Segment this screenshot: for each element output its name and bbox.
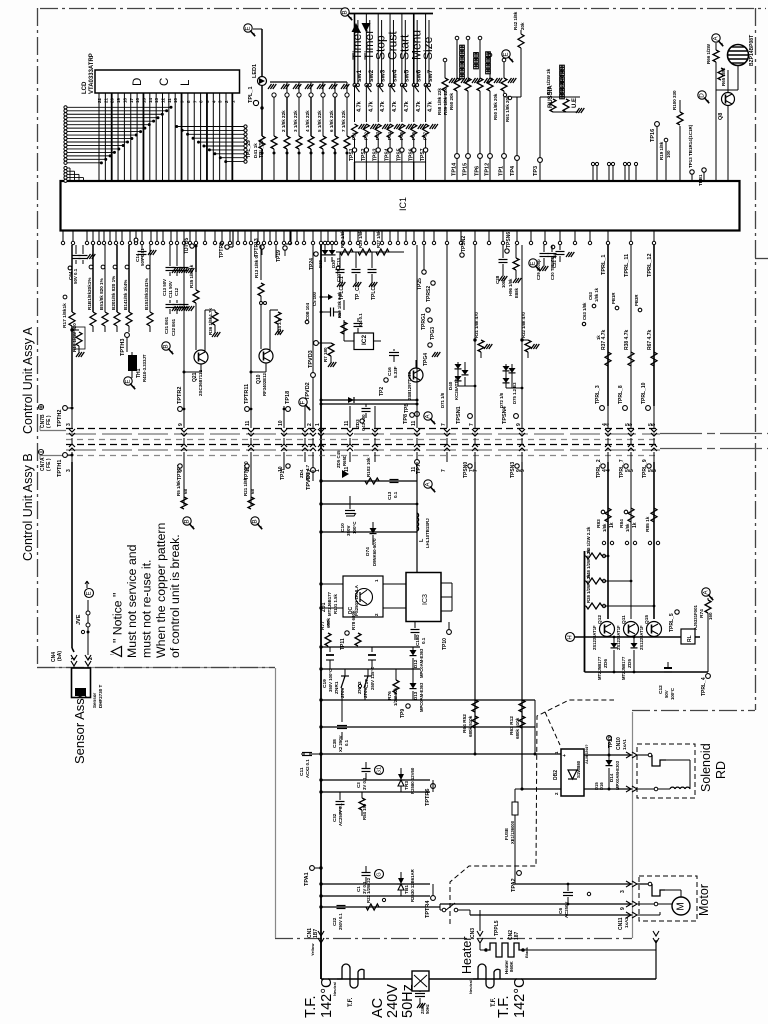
svg-text:TP18: TP18 [285,391,291,404]
svg-text:TPS4: TPS4 [385,148,391,161]
test point TP4 [516,97,518,181]
svg-text:TPS2: TPS2 [361,148,367,161]
svg-text:R22 1/2W 22: R22 1/2W 22 [366,877,371,903]
board-to-board connector band row4 black dashed [66,444,660,446]
test point TPTR11 [245,407,250,412]
svg-text:50V: 50V [664,690,669,698]
svg-text:10: 10 [278,420,284,426]
svg-text:R68 4.7: R68 4.7 [305,464,310,480]
svg-text:MPX0AM-E303: MPX0AM-E303 [615,760,620,790]
svg-text:R26 1/8k: R26 1/8k [340,230,345,248]
svg-text:ZD6: ZD6 [603,659,609,668]
page frame dash-dot top border [40,8,766,10]
connector CN2 187 arrows [653,931,659,943]
power rail y647 [321,646,420,648]
svg-text:C22: C22 [332,917,337,926]
switch SW2 Timer [365,14,367,84]
svg-text:R58 1/8k 22k: R58 1/8k 22k [437,87,442,115]
svg-text:TPSN2: TPSN2 [461,236,467,252]
resistor R13 1/8k 0 [258,283,264,296]
wire TPRL_1 column [607,245,609,406]
svg-text:B: B [184,519,191,523]
wire TPRL_9 column lower [653,462,655,619]
capacitor C13 0.1 [390,479,399,481]
resistor R59b [341,322,347,334]
svg-text:11: 11 [245,420,251,426]
svg-text:XE1/136000: XE1/136000 [510,820,515,844]
svg-text:When the copper pattern: When the copper pattern [154,522,168,658]
svg-text:TP1: TP1 [499,166,505,176]
IC IC2 [354,333,374,350]
svg-text:Q15: Q15 [644,615,650,624]
svg-text:MTZJ6B177: MTZJ6B177 [327,592,332,616]
solenoid contact flag [637,754,648,756]
svg-text:7 1/8k 22k: 7 1/8k 22k [341,110,346,132]
svg-text:3: 3 [620,890,626,893]
cluster capacitors C13 C11 C12 row1 [169,245,171,266]
solenoid box dashed [637,744,695,798]
svg-text:R38 4.7k: R38 4.7k [624,329,630,350]
test point TPSN1 [468,414,473,419]
svg-text:TPS3: TPS3 [373,148,379,161]
svg-text:R27 1/8k: R27 1/8k [376,230,381,248]
resistor R35 1/8k 1k [193,290,199,303]
svg-text:VTA0333ATRP: VTA0333ATRP [89,53,95,94]
svg-text:TP24: TP24 [309,258,315,270]
svg-text:TP15: TP15 [463,163,469,176]
test point TPRL_4 [706,674,711,679]
svg-text:TPVD2: TPVD2 [305,382,311,400]
svg-text:1/8k: 1/8k [625,523,630,532]
svg-text:Black: Black [524,947,529,958]
svg-text:270V: 270V [340,687,345,698]
svg-text:B151/8k3341%: B151/8k3341% [144,278,149,310]
test point circle D with arrow [698,91,706,99]
capacitor C6 AC250V [563,892,573,894]
svg-text:C: C [159,78,171,86]
switch SW7 Size [425,14,427,84]
test point TP9 [406,704,410,708]
test point circle B mid2 [251,517,259,525]
svg-text:B51/8k 820 1%: B51/8k 820 1% [99,278,104,310]
svg-text:B201/8k 820 1%: B201/8k 820 1% [111,276,116,310]
diode group D71 D72 [462,370,469,375]
svg-text:D13: D13 [413,691,418,700]
svg-text:Q12: Q12 [597,615,603,624]
svg-text:R7 180: R7 180 [323,347,328,362]
test point TPL_1 [253,100,258,105]
svg-text:R17 1/8k1k: R17 1/8k1k [62,303,68,328]
test point TPVD2 [311,373,316,378]
capacitor C17 250V 135C [371,647,373,652]
test point circle F [299,398,307,406]
resistor R65 1/8k [718,68,724,80]
triac TR3 cluster [321,779,430,781]
svg-text:R8 1/2W 2.2k: R8 1/2W 2.2k [586,526,591,553]
boundary dash-dot bottom of control unit B [275,938,632,940]
svg-text:H96 1/8k: H96 1/8k [508,278,513,296]
svg-text:R102 10k: R102 10k [366,457,371,477]
resistor R20 1/2W 2k [540,96,580,98]
test point TPTH3 [125,333,130,338]
svg-text:15: 15 [141,97,146,103]
svg-text:TPSN4: TPSN4 [502,405,508,424]
open pin pairs mid [602,541,605,544]
power rail y504 [321,503,417,505]
resistor R21 below band [248,497,254,509]
capacitor C4 [357,318,359,322]
svg-text:R5 1/8k: R5 1/8k [176,480,181,496]
svg-text:ACX2 0.1: ACX2 0.1 [305,759,310,778]
svg-text:TP25: TP25 [417,278,423,290]
svg-text:G1: G1 [376,767,382,774]
wire TPSN2 column [446,245,448,406]
test point TPRL_8 [623,406,628,411]
svg-text:TPL_29: TPL_29 [246,140,252,158]
test point circle E above JVE [85,589,94,598]
svg-text:TPG4: TPG4 [423,353,429,366]
svg-text:1k: 1k [596,335,601,340]
svg-text:D71 1/8: D71 1/8 [440,392,445,408]
test point TPB1 [702,168,706,172]
test point circle G [375,870,384,879]
svg-text:FUSE: FUSE [504,828,509,840]
svg-text:TPPL5: TPPL5 [494,920,500,936]
svg-text:TP14: TP14 [452,162,458,176]
svg-text:Yellow: Yellow [310,943,315,956]
resistor R52 4.7k [365,87,367,122]
svg-text:T.F.: T.F. [348,997,354,1007]
svg-text:C30 TPL.C8: C30 TPL.C8 [550,256,555,280]
test point TPTH2 [63,406,68,411]
boundary gray vertical at x=632 [632,712,634,938]
test point circle G1 [375,766,384,775]
svg-text:IC1: IC1 [398,197,408,211]
svg-text:TPSN6: TPSN6 [506,232,512,248]
resistor R16 1/4W 820 [70,328,73,331]
transistor Q11 2S1238AT1F [624,622,639,637]
svg-text:R48 1/2W 2.2k: R48 1/2W 2.2k [586,549,591,578]
svg-text:3 1/8k 22k: 3 1/8k 22k [293,110,298,132]
switch SW1 Timer [354,14,356,84]
svg-text:R1B1/8k20k1%: R1B1/8k20k1% [87,278,92,310]
svg-text:C13: C13 [387,491,392,500]
svg-text:5 1/8k 22k: 5 1/8k 22k [317,110,322,132]
svg-text:2 1/8k 22k: 2 1/8k 22k [281,110,286,132]
svg-text:19: 19 [116,97,121,103]
svg-text:7: 7 [441,423,447,426]
capacitor C10 350V 100C [349,496,351,504]
capacitor C1 0.1 [362,872,371,874]
board-to-board connector band row6 gray dashed [66,455,660,457]
svg-text:R19 1/8k: R19 1/8k [659,141,664,160]
resistor R54 4.7k [389,87,391,122]
svg-text:TP16: TP16 [650,129,656,142]
test point TPTR4 [431,896,436,901]
test point TPTH1 [63,453,68,458]
svg-text:4.7k: 4.7k [404,100,410,112]
svg-text:R66 1/2W: R66 1/2W [706,43,711,64]
svg-text:R100 330: R100 330 [672,90,677,110]
svg-text:must not re-use it.: must not re-use it. [140,560,154,658]
svg-text:350V 100°C: 350V 100°C [328,669,333,692]
resistor R76 1/2W [393,680,399,693]
svg-text:TPTH1: TPTH1 [57,460,63,477]
svg-text:E88k: E88k [514,287,519,298]
test point TPS7 [425,138,427,162]
resistor R36 1/8k 4.7k [212,312,218,325]
svg-text:TPRL_11: TPRL_11 [624,254,630,277]
zener ZD6 MTZJ5B177 [613,637,615,643]
long wire TPSN4 column [521,245,523,406]
svg-text:TDTO5: TDTO5 [184,237,190,254]
test point column TP1 [502,58,506,62]
svg-text:R78 680k: R78 680k [351,610,356,630]
wire x276 stub [275,245,277,258]
svg-text:1: 1 [315,423,321,426]
svg-text:21: 21 [103,97,108,103]
motor connector crossing arrows [626,881,637,887]
test point circle E with arrow [244,24,252,32]
svg-text:TPTR13: TPTR13 [254,238,260,257]
svg-text:R410-3.333JT: R410-3.333JT [142,354,147,382]
svg-text:D16: D16 [599,782,604,790]
inductor L LHL10TB1SRJ [417,513,419,518]
bottom rail y672 [585,671,709,673]
svg-text:12: 12 [161,97,166,103]
svg-text:3: 3 [66,469,72,472]
svg-text:TPA2: TPA2 [511,878,517,892]
test point circle H [566,633,575,642]
svg-text:5: 5 [625,423,631,426]
svg-text:R31 1/8k 470: R31 1/8k 470 [474,312,479,338]
svg-text:860K: 860K [509,960,514,972]
svg-text:TPS7: TPS7 [420,148,426,161]
svg-text:C32 E61: C32 E61 [171,318,176,336]
svg-text:50V 0.1: 50V 0.1 [73,268,78,284]
svg-text:" Notice ": " Notice " [111,593,125,643]
capacitor C21 1uF [559,245,561,250]
resistor R38 4.7k [628,352,634,366]
solenoid connector crossing arrows [626,752,637,758]
svg-text:TPB1: TPB1 [698,174,703,186]
svg-text:4: 4 [602,423,608,426]
svg-text:TPG3: TPG3 [430,327,436,340]
svg-text:Control Unit Assy A: Control Unit Assy A [21,326,35,434]
resistor columns with pullups to IC1 [286,82,288,93]
svg-text:TPTR11: TPTR11 [244,384,250,404]
svg-text:680k 510k: 680k 510k [468,715,473,737]
svg-text:TP10: TP10 [442,638,448,650]
svg-text:14: 14 [148,97,153,103]
svg-text:C31 E61: C31 E61 [164,316,169,334]
svg-text:Sensor Assy: Sensor Assy [72,691,87,764]
svg-text:R59 1/8k 2.2k: R59 1/8k 2.2k [337,291,342,318]
svg-text:R20 1/2W 2k: R20 1/2W 2k [546,68,551,95]
svg-text:18: 18 [122,97,127,103]
svg-text:sw3: sw3 [380,69,387,82]
svg-text:B: B [252,519,259,523]
svg-text:D12: D12 [413,659,418,668]
svg-text:+: + [562,754,568,757]
svg-text:100°C: 100°C [670,688,675,700]
svg-text:RD: RD [714,761,728,779]
svg-text:160: 160 [708,612,713,620]
double rail to TP8 column [321,399,417,401]
svg-text:Q11: Q11 [621,615,627,624]
wire TPRL_11 column [630,245,632,406]
svg-text:7: 7 [469,423,475,426]
svg-text:TPTR9: TPTR9 [219,242,225,258]
svg-text:TPS6: TPS6 [408,148,414,161]
resistor array R1B1/B51/B201/B141/B151 [92,245,94,312]
svg-text:R32 1/8k 470: R32 1/8k 470 [521,312,526,338]
switch SW4 Crust [389,14,391,84]
resistor R14 3.7k [275,312,281,324]
svg-text:(bA): (bA) [57,651,63,661]
resistor RD1 1/2W 2k [563,99,569,112]
capacitor C61 [82,245,84,254]
svg-text:RD1 1/2W 2k: RD1 1/2W 2k [559,67,564,95]
capacitor C19 350V 100C zener style [329,647,331,652]
resistor R100 330 [677,112,683,125]
svg-text:4.7k: 4.7k [380,100,386,112]
transistor Q10 [259,349,273,363]
svg-text:R74: R74 [699,609,705,618]
svg-text:TPRL_2: TPRL_2 [596,459,602,478]
svg-text:142°C: 142°C [319,978,335,1018]
test point TPTR2 [178,407,183,412]
resistor R37 4.7k [605,352,611,366]
svg-text:7: 7 [441,469,447,472]
capacitor C22 and resistor R22 [321,906,440,908]
svg-text:B141/8k 3k4%: B141/8k 3k4% [123,280,128,310]
triac TB1 symbol [398,878,404,884]
svg-text:BZP14BP08T: BZP14BP08T [749,35,755,66]
page frame dash-dot left border [37,8,39,667]
svg-text:1xA2: 1xA2 [624,917,629,928]
svg-text:250V 0.1: 250V 0.1 [338,913,343,930]
test point column TP6 [478,36,482,40]
resistor R84 1k [628,508,634,522]
svg-text:TPTR4: TPTR4 [425,900,431,918]
svg-text:PB3R: PB3R [634,294,639,306]
svg-text:TPTH2: TPTH2 [57,410,63,427]
capacitor C18D 0.1 [414,622,416,628]
svg-text:Solenoid: Solenoid [699,743,713,792]
svg-text:D41 1k: D41 1k [253,143,258,158]
test point column R60 [443,58,447,62]
thermistor sensor body [72,668,91,698]
open contacts near R13 [260,302,263,305]
resistor R64 R52 labels [472,700,478,712]
svg-text:sw4: sw4 [392,69,399,82]
svg-text:10: 10 [173,97,178,103]
svg-text:DHF2730 T: DHF2730 T [98,684,103,708]
wire branch x535 down [534,700,536,754]
resistor R78 680k [355,633,361,646]
svg-text:sw2: sw2 [368,69,375,82]
svg-text:4.7k: 4.7k [392,100,398,112]
key arrow down triangle [362,23,371,32]
heater row [480,949,486,951]
LCD pin wires to IC1 [98,93,100,181]
capacitor C64 50V 0.1 [75,245,77,254]
test point TPRL_3 [600,406,605,411]
svg-text:R54 150: R54 150 [362,803,367,820]
svg-text:E: E [503,52,510,56]
svg-text:C63 1/8k: C63 1/8k [582,302,587,320]
test point TP2 [384,378,388,382]
wire comb left bus with junction dots [64,106,67,109]
svg-text:C4 0.1: C4 0.1 [358,313,363,326]
svg-text:Sensor: Sensor [92,692,97,708]
power rail y754 capacitor C11 [321,753,561,755]
test point column TP14 [455,36,459,40]
svg-text:22: 22 [97,97,102,103]
svg-text:5.33F: 5.33F [393,366,398,378]
resistor R85 1k [651,508,657,522]
svg-text:11: 11 [344,466,350,472]
svg-text:4.7k: 4.7k [368,100,374,112]
svg-text:C63: C63 [588,292,593,300]
test point circle A near TP8 [424,412,432,420]
test point TPS1 [354,138,356,162]
switch SW3 Stop [377,14,379,84]
svg-text:1xA1: 1xA1 [622,739,627,750]
IC1 top stub pins with open circles [591,162,594,165]
switch bottom bus [355,161,426,163]
diode D74 D9NK60 [370,528,377,534]
wire TP8 column [416,245,418,406]
svg-text:D: D [132,78,144,86]
svg-text:sw5: sw5 [403,69,410,82]
diode D12 MPC0AM-E363 [410,650,417,656]
svg-text:MPC0AM-E363: MPC0AM-E363 [419,682,424,712]
svg-text:50V 0.01: 50V 0.01 [140,248,145,266]
page frame dash-dot right border [755,8,757,710]
relay contact switch [442,908,446,912]
connector band extension right [660,433,768,435]
motor rail 3 [470,914,632,916]
test point TPRL_10 [646,406,651,411]
test point TPRL_5 [675,610,679,614]
svg-text:TP8: TP8 [403,414,409,424]
LCD module block [95,70,240,93]
power rail y669 [321,668,420,670]
resistor R55 4.7k [401,87,403,122]
svg-text:TP6: TP6 [475,166,481,176]
optocoupler DC PS2501 [343,576,383,617]
wire TPSN3 column down [521,462,523,789]
svg-text:AC: AC [370,998,386,1018]
diode group right D73 D75 [505,364,507,388]
diode cluster below band left [342,470,349,478]
test point TP23 [607,736,612,741]
resistor D21 column TPL_30 [268,84,272,89]
svg-text:TP12: TP12 [485,163,491,176]
test point TP18 [286,407,291,412]
svg-text:TP19: TP19 [276,250,282,262]
svg-text:D40: D40 [448,381,453,390]
test point circle E near TH1 [124,377,132,385]
triac TB1 cluster rails [321,883,430,885]
svg-text:0.1: 0.1 [393,491,398,498]
svg-text:D74: D74 [365,547,371,556]
svg-text:4.7k: 4.7k [428,100,434,112]
svg-text:R13 1/8k 0: R13 1/8k 0 [254,255,259,278]
svg-text:TPS1: TPS1 [349,148,355,161]
